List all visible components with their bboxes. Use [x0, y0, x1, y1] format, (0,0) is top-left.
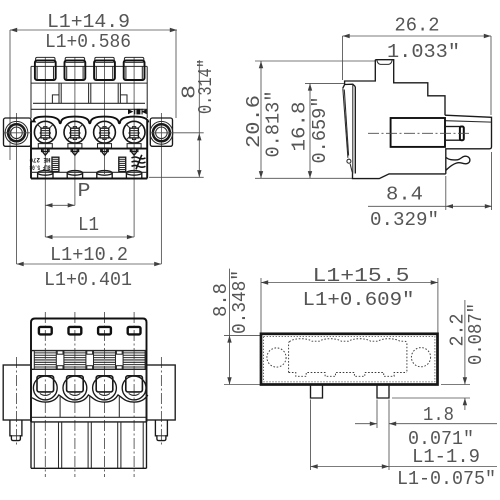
dim line 2.2 upper — [464, 300, 466, 385]
body left edge lower (bold) — [30, 121, 32, 178]
screw 1 collar — [38, 144, 52, 148]
chamber divider — [87, 422, 89, 468]
foot 4 — [126, 171, 141, 176]
extension line right (L1+14.9) — [175, 30, 177, 118]
clamp inner edge — [352, 84, 354, 173]
clamp band top line — [31, 350, 147, 352]
extension line bottom (8 dim) — [149, 176, 204, 178]
mounting tab 2 — [377, 385, 389, 399]
lower body top edge (bold) — [31, 148, 147, 150]
svg-text:HE 270: HE 270 — [29, 156, 50, 163]
pole 2 centerline / extension — [74, 57, 76, 205]
dim line 20.6 — [260, 61, 262, 178]
svg-text:P: P — [78, 180, 91, 202]
pole 4 centerline / extension — [133, 57, 135, 237]
screw 4 collar — [127, 144, 141, 148]
lower scallop outline — [31, 395, 148, 402]
extension line 8.4 left — [445, 176, 447, 210]
pin support block — [391, 118, 445, 147]
clamp hatch 1 — [34, 351, 56, 370]
svg-text:8.4: 8.4 — [386, 184, 423, 206]
scalloped body outline over screws — [31, 117, 148, 124]
tab 2 — [65, 57, 84, 62]
svg-text:L1-1.9: L1-1.9 — [412, 446, 480, 468]
right inner wall — [142, 422, 144, 468]
extension line 1.8 right / L1-1.9 right — [388, 400, 390, 471]
pole centerline (dash-dot) — [133, 312, 135, 477]
right section shroud — [445, 115, 492, 174]
clamp separator — [116, 351, 122, 355]
extension line 26.2 left — [342, 36, 344, 80]
pole centerline (dash-dot) — [44, 312, 46, 477]
clamp hatch 2 — [64, 351, 86, 370]
feet band top line — [31, 171, 147, 173]
pole 3 centerline — [104, 57, 106, 174]
svg-text:L1-0.075": L1-0.075" — [397, 468, 496, 490]
dotted flange hole right — [411, 348, 430, 367]
dim line L1 — [45, 236, 134, 238]
screw 3 — [94, 121, 116, 143]
clamp separator — [87, 351, 93, 355]
tab 4 — [124, 57, 143, 62]
dim line L1+15.5 — [261, 282, 438, 284]
foot 1 — [38, 171, 53, 176]
extension line 2.2 top — [441, 384, 470, 386]
clamp hatch 4 — [123, 351, 145, 370]
dim line L1-1.9 — [311, 466, 498, 468]
extension line L1+15.5 right — [437, 278, 439, 334]
extension line 26.2 right — [490, 36, 492, 115]
svg-text:BLF 5.08: BLF 5.08 — [29, 164, 50, 171]
dim line 8.4 — [368, 205, 492, 207]
pin centerline (dash-dot) — [368, 132, 472, 134]
right flange — [150, 118, 172, 146]
extension line 20.6 top — [255, 60, 375, 62]
svg-text:L1+0.586: L1+0.586 — [45, 31, 131, 53]
chamber wall — [88, 83, 90, 103]
dotted connector silhouette — [289, 339, 407, 373]
side view body outline — [375, 60, 445, 115]
tab 3 — [95, 57, 114, 62]
chamber step left — [52, 95, 59, 103]
flange hole centerline left — [16, 113, 18, 264]
svg-text:0.087": 0.087" — [465, 303, 487, 365]
release clamp lever — [345, 84, 356, 86]
coding element A — [52, 157, 59, 171]
extension line 8.8 bottom — [224, 384, 261, 386]
screw 2 collar — [68, 144, 82, 148]
body bottom edge — [353, 173, 446, 178]
dim line 26.2 — [343, 35, 492, 37]
solder pin — [445, 126, 461, 128]
svg-text:0.659": 0.659" — [309, 97, 331, 164]
panel cut-out rectangle — [261, 334, 438, 385]
extension line L1+15.5 left — [260, 278, 262, 334]
dim line L1+14.9 — [10, 29, 177, 31]
mounting tab 1 — [311, 385, 323, 399]
dim line L1+10.2 — [17, 263, 162, 265]
tab 1 — [36, 57, 55, 62]
dimension 8 / 0.314in — [198, 60, 200, 177]
screw 1 pin — [43, 149, 48, 156]
screw 2 pin — [73, 149, 78, 156]
divider upper — [118, 395, 120, 417]
chamber step right — [121, 95, 128, 103]
pole centerline (dash-dot) — [104, 312, 106, 477]
right wing centerline — [160, 357, 162, 446]
right wing — [147, 365, 176, 420]
chamber divider — [58, 422, 60, 468]
left wing — [3, 365, 31, 420]
body bottom edge (bold) — [31, 178, 147, 180]
chamber wall — [58, 83, 60, 103]
divider upper — [59, 395, 61, 417]
chamber divider — [117, 422, 119, 468]
dim line 8.8 — [229, 269, 231, 385]
dim line 1.8 right part — [389, 423, 497, 425]
front face line — [31, 108, 147, 110]
body left edge upper — [30, 66, 32, 118]
latch hook — [446, 156, 470, 170]
extension line 20.6 bottom — [255, 177, 353, 179]
foot 3 — [97, 171, 112, 176]
svg-text:26.2: 26.2 — [395, 15, 440, 37]
manufacturer logo — [132, 155, 146, 170]
wire entry 1 — [33, 376, 57, 400]
extension line 16.8 top — [305, 82, 345, 84]
svg-text:0.329": 0.329" — [370, 209, 439, 231]
dotted flange hole left — [267, 348, 286, 367]
extension line 1.8 left — [376, 400, 378, 429]
clamp hatch 3 — [94, 351, 116, 370]
svg-text:16.8: 16.8 — [289, 102, 311, 152]
pole 1 centerline / extension — [44, 57, 46, 237]
body right edge lower (bold) — [146, 120, 148, 178]
pole centerline (dash-dot) — [74, 312, 76, 477]
wire entry 4 — [122, 376, 146, 400]
body right edge upper — [146, 66, 148, 118]
svg-text:1.033": 1.033" — [387, 41, 460, 63]
base band line — [31, 416, 147, 418]
wire entry 3 — [93, 376, 117, 400]
body band line — [31, 82, 147, 84]
coding element B — [119, 157, 126, 171]
svg-text:L1+15.5: L1+15.5 — [313, 265, 410, 287]
dim line 2.2 lower — [464, 398, 466, 410]
svg-text:0.813": 0.813" — [263, 91, 285, 158]
screw 3 collar — [98, 144, 112, 148]
wire entry 2 — [63, 376, 87, 400]
dotted silhouette bottom tabs — [289, 373, 407, 377]
extension line 8.4 right — [491, 152, 493, 210]
dim line 1.8 left part — [355, 423, 377, 425]
svg-text:0.348": 0.348" — [229, 270, 251, 334]
svg-text:L1+10.2: L1+10.2 — [50, 244, 128, 266]
marking symbol >|M|< — [128, 109, 147, 115]
top notch detail — [377, 60, 392, 65]
body top edge — [31, 65, 147, 67]
svg-text:0.314": 0.314" — [195, 59, 217, 114]
screw 1 — [34, 121, 56, 143]
dim line P — [45, 204, 75, 206]
latch window 1 — [39, 327, 52, 335]
latch window 4 — [128, 327, 141, 335]
screw 4 pin — [132, 149, 137, 156]
clamp band bottom line — [31, 368, 147, 370]
svg-text:1.8: 1.8 — [423, 404, 454, 426]
latch window 3 — [98, 327, 111, 335]
chamber bottom line — [33, 102, 145, 104]
extension line 8.8 top — [224, 334, 261, 336]
left wing screw pin — [10, 420, 22, 441]
clamp right edge — [354, 87, 356, 174]
svg-text:L1+0.401: L1+0.401 — [44, 269, 132, 291]
svg-text:L1: L1 — [78, 214, 99, 236]
left wing centerline — [16, 357, 18, 446]
chamber wall — [117, 83, 119, 103]
dim line 16.8 — [309, 83, 311, 178]
svg-text:L1+0.609": L1+0.609" — [303, 289, 415, 311]
screw 2 — [64, 121, 86, 143]
base top line — [31, 421, 147, 423]
extension line flange center to 8-dim — [150, 132, 203, 134]
divider upper — [89, 395, 91, 417]
marking text BLF 5.08 HE — [29, 156, 50, 171]
right wing screw pin — [155, 420, 167, 441]
flange hole centerline right — [160, 113, 162, 264]
clamp separator — [57, 351, 63, 355]
screw 3 pin — [102, 149, 107, 156]
extension line L1-1.9 left — [310, 400, 312, 471]
bottom edge — [31, 467, 147, 469]
latch window 2 — [69, 327, 82, 335]
left flange — [4, 118, 32, 146]
bottom view body outline — [31, 319, 147, 366]
extension line 2.2 bottom — [392, 397, 470, 399]
foot 2 — [67, 171, 82, 176]
screw 4 — [123, 121, 145, 143]
left inner wall — [33, 422, 35, 468]
extension line left (L1+14.9) — [9, 30, 11, 160]
